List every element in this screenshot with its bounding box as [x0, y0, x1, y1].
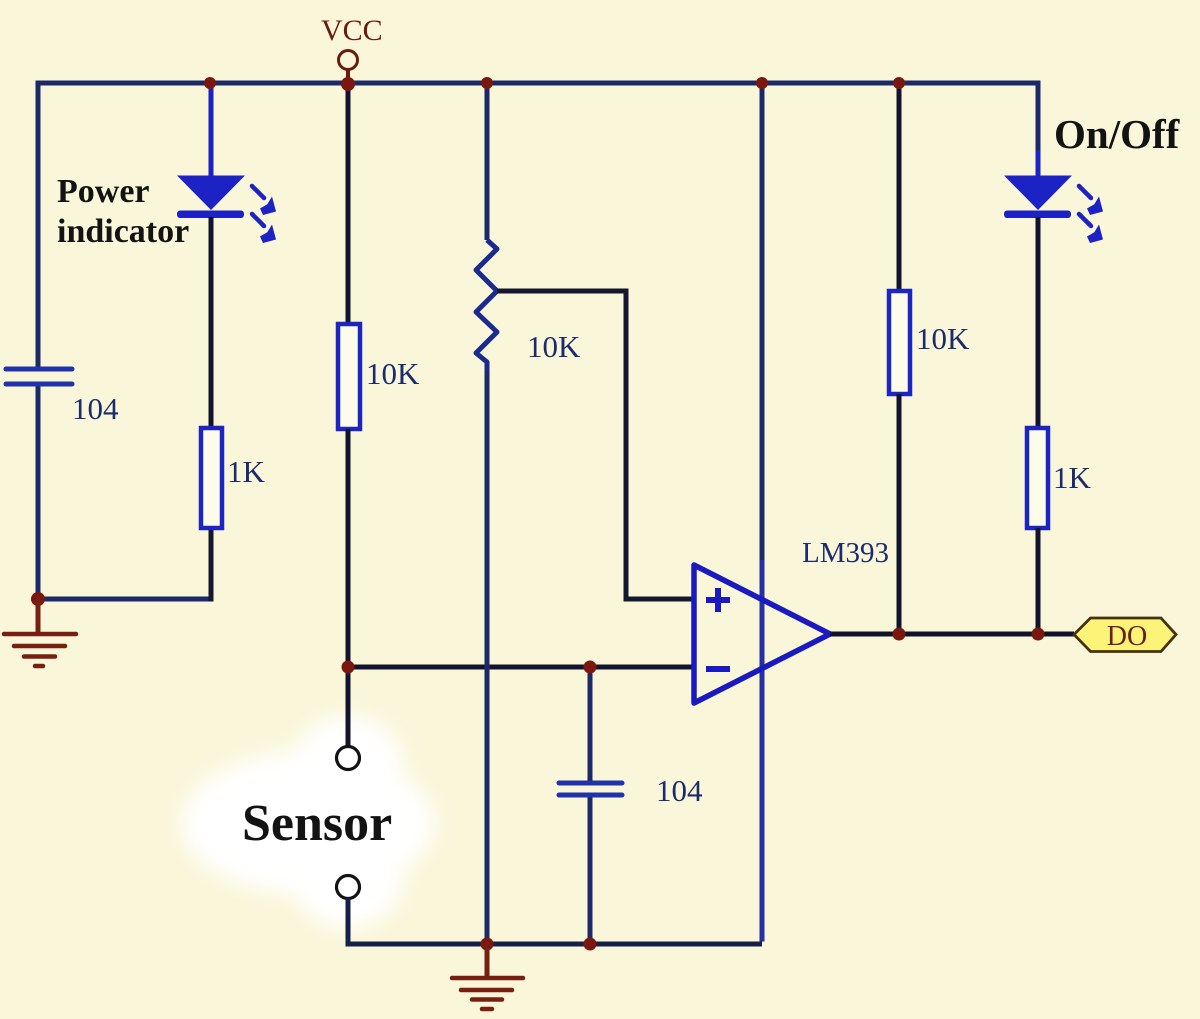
svg-text:Sensor: Sensor [242, 795, 392, 852]
wire inverting input [348, 665, 694, 670]
svg-text:On/Off: On/Off [1054, 111, 1181, 157]
wire ground return under power indicator [38, 597, 213, 602]
wire VCC to R 10K (right) [897, 83, 902, 291]
svg-text:LM393: LM393 [802, 537, 889, 569]
wire LED D2 cathode to R 1K (right) [1036, 217, 1041, 428]
port DO flag [1074, 618, 1176, 652]
op-amp minus input mark [706, 666, 730, 672]
svg-text:104: 104 [656, 773, 703, 808]
wire potentiometer bottom to ground rail [485, 371, 490, 944]
svg-text:VCC: VCC [321, 14, 383, 47]
svg-text:Power: Power [57, 173, 150, 210]
op-amp U1 LM393 [694, 565, 830, 703]
wire R 10K (right) to output [897, 394, 902, 634]
svg-text:indicator: indicator [57, 213, 189, 250]
ground (left) [4, 599, 76, 666]
VCC terminal circle [339, 51, 358, 70]
wire R 1K (right) to output [1036, 528, 1041, 634]
capacitor 104 (right) [559, 783, 622, 795]
LED D1 power indicator [177, 176, 245, 219]
resistor 10K (right) [889, 291, 910, 394]
wire LED D2 anode [1036, 150, 1041, 176]
svg-text:104: 104 [72, 391, 119, 426]
wire capacitor 104 (right) top [588, 667, 593, 781]
capacitor 104 (left) [6, 369, 72, 384]
svg-text:10K: 10K [527, 329, 581, 364]
op-amp plus input mark [706, 588, 730, 612]
sensor terminal upper circle [337, 747, 360, 770]
wire LM393 power rail [760, 83, 765, 560]
sensor terminal lower circle [337, 876, 360, 899]
potentiometer 10K zigzag [476, 240, 497, 371]
svg-text:1K: 1K [227, 454, 266, 489]
wire VCC to potentiometer [485, 83, 490, 240]
wire LED D1 anode [209, 83, 214, 176]
LED D2 On/Off [1004, 176, 1072, 219]
ground (bottom) [452, 944, 523, 1009]
sensor white halo [182, 716, 434, 928]
svg-text:10K: 10K [366, 356, 420, 391]
LED D2 arrows [1079, 186, 1103, 243]
wire left branch cap to ground [36, 383, 41, 599]
resistor 1K (right) [1027, 428, 1048, 528]
svg-text:10K: 10K [916, 321, 970, 356]
resistor 1K (left) [201, 428, 222, 528]
wire sensor terminal lower to ground rail [348, 898, 762, 944]
wire top rail VCC [38, 83, 1038, 370]
wire capacitor 104 (right) bottom [588, 797, 593, 944]
wire op-amp output to DO [830, 632, 1074, 637]
wire VCC to R 10K (middle) [346, 83, 351, 324]
wire LED D1 cathode to R 1K [209, 217, 214, 428]
svg-text:1K: 1K [1053, 460, 1092, 495]
LED D1 arrows [252, 186, 276, 243]
wire sensor terminal upper [346, 667, 351, 747]
wire wiper to non-inverting input [497, 291, 694, 599]
wire R 10K to sensor node [346, 429, 351, 667]
resistor 10K (middle) [338, 324, 360, 429]
svg-text:DO: DO [1107, 621, 1147, 652]
